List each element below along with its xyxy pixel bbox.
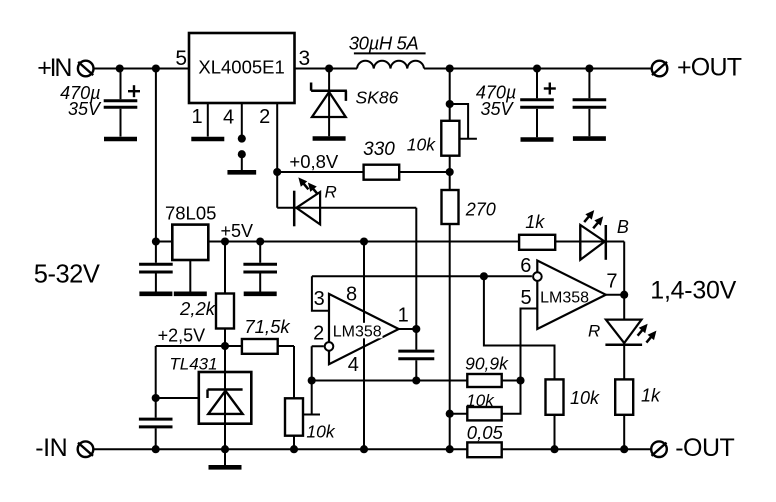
svg-text:R: R — [325, 182, 337, 201]
svg-text:35V: 35V — [68, 99, 102, 119]
svg-text:1k: 1k — [641, 386, 661, 406]
svg-text:7: 7 — [606, 271, 617, 293]
svg-text:4: 4 — [348, 354, 359, 376]
svg-text:-OUT: -OUT — [675, 434, 734, 462]
svg-text:8: 8 — [346, 284, 357, 306]
svg-text:2: 2 — [313, 323, 324, 345]
svg-text:LM358: LM358 — [540, 290, 589, 307]
svg-text:4: 4 — [223, 106, 234, 128]
svg-text:30µH 5A: 30µH 5A — [349, 32, 419, 53]
svg-text:2,2k: 2,2k — [179, 298, 217, 319]
svg-text:10k: 10k — [466, 391, 495, 410]
svg-text:+5V: +5V — [221, 221, 254, 241]
svg-text:+OUT: +OUT — [677, 54, 742, 82]
svg-text:1k: 1k — [525, 212, 545, 232]
svg-text:10k: 10k — [407, 135, 436, 155]
svg-text:0,05: 0,05 — [467, 422, 504, 443]
svg-text:5: 5 — [175, 47, 187, 70]
svg-text:SK86: SK86 — [356, 88, 399, 108]
svg-text:1: 1 — [191, 106, 202, 128]
svg-text:71,5k: 71,5k — [244, 316, 291, 337]
svg-text:10k: 10k — [306, 422, 335, 442]
svg-text:90,9k: 90,9k — [465, 354, 509, 374]
svg-text:35V: 35V — [480, 99, 514, 119]
svg-text:-IN: -IN — [35, 434, 67, 462]
svg-text:1: 1 — [398, 305, 409, 327]
svg-text:10k: 10k — [570, 388, 600, 408]
svg-text:2: 2 — [259, 106, 270, 128]
svg-text:5-32V: 5-32V — [34, 261, 100, 289]
svg-text:6: 6 — [520, 255, 531, 277]
svg-text:270: 270 — [465, 200, 496, 220]
svg-text:+0,8V: +0,8V — [289, 151, 339, 172]
svg-text:LM358: LM358 — [333, 323, 382, 340]
svg-text:+IN: +IN — [37, 54, 71, 82]
svg-text:R: R — [588, 321, 600, 340]
svg-text:+2,5V: +2,5V — [158, 325, 206, 345]
svg-text:TL431: TL431 — [169, 355, 217, 374]
svg-text:3: 3 — [299, 47, 311, 70]
svg-text:3: 3 — [314, 288, 325, 310]
svg-text:1,4-30V: 1,4-30V — [650, 277, 736, 305]
svg-text:XL4005E1: XL4005E1 — [198, 56, 284, 77]
svg-text:B: B — [617, 217, 629, 237]
svg-text:78L05: 78L05 — [165, 203, 216, 224]
svg-text:330: 330 — [363, 139, 395, 160]
svg-text:5: 5 — [521, 287, 532, 309]
